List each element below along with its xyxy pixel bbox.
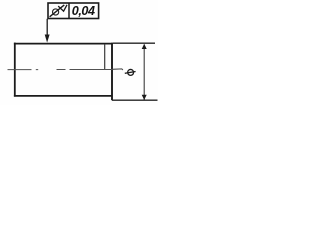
diameter symbol phi (rotated) circle	[128, 69, 134, 75]
diameter symbol phi bar	[125, 72, 136, 74]
top dimension arrowhead	[142, 44, 147, 49]
dimension line	[143, 45, 145, 100]
part outline: bottom edge	[14, 95, 112, 97]
top extension line	[113, 42, 155, 44]
runout symbol arrow shaft	[50, 5, 65, 17]
bottom dimension arrowhead	[142, 95, 147, 100]
centerline (dash-dot axis)	[8, 69, 113, 71]
runout symbol arrowhead	[58, 5, 67, 11]
runout symbol circle	[53, 9, 59, 15]
bottom extension line	[112, 99, 158, 101]
part outline: left edge	[14, 43, 16, 97]
part outline: right edge	[111, 43, 113, 100]
centerline end dash	[112, 69, 123, 70]
leader arrowhead	[45, 35, 50, 43]
part outline: top edge	[14, 43, 113, 45]
inner step line	[104, 44, 106, 70]
leader line	[46, 19, 48, 37]
feature control frame box	[48, 3, 99, 19]
frame cell divider	[68, 3, 70, 19]
svg-text:0,04: 0,04	[72, 4, 95, 18]
